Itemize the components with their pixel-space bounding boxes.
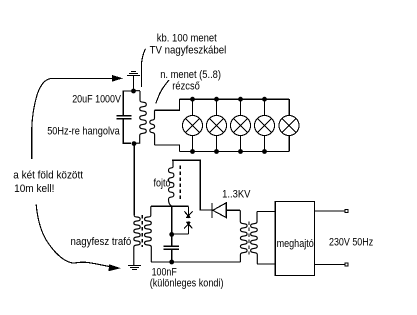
wire (fojto top to diode branch) <box>172 160 212 210</box>
wire (bottom rail) <box>151 261 241 263</box>
wire (lamp bottom rail) <box>180 151 290 153</box>
svg-text:20uF 1000V: 20uF 1000V <box>72 93 121 105</box>
svg-text:kb. 100 menet: kb. 100 menet <box>157 32 217 44</box>
wire (leader curve lower-left with arrow to E2) <box>36 205 109 267</box>
wire (T2 right bottom to driver box) <box>257 263 275 265</box>
node (dot top rail lamp3) <box>238 97 243 102</box>
svg-text:rézcső: rézcső <box>172 80 200 92</box>
terminal (230V top, open square) <box>345 210 348 213</box>
block U1 meghajto driver box <box>275 202 314 276</box>
wire (node B down to transformer T1) <box>133 146 135 216</box>
node (dot top rail lamp2) <box>214 97 219 102</box>
svg-text:50Hz-re hangolva: 50Hz-re hangolva <box>47 126 120 138</box>
diode D1 1..3KV <box>212 203 226 218</box>
capacitor C2 100nF <box>171 236 173 246</box>
lamp LA5 <box>279 116 299 136</box>
inductor L3 fojto choke <box>169 160 174 206</box>
inductor L1 primary winding <box>134 91 147 144</box>
wire (L2 top to lamp top rail) <box>155 99 180 110</box>
svg-text:n. menet (5..8): n. menet (5..8) <box>160 69 221 81</box>
ground E2 (bottom earth under T1) <box>128 265 141 270</box>
node (dot bottom rail lamp1) <box>190 149 195 154</box>
node D (junction dot on bottom rail) <box>169 260 174 265</box>
wire (lamp top rail) <box>180 98 290 100</box>
svg-text:1..3KV: 1..3KV <box>222 188 251 200</box>
node (dot bottom rail lamp4) <box>262 149 267 154</box>
wire (T2 core dashed) <box>248 222 250 255</box>
lamp LA3 <box>231 99 251 151</box>
svg-text:a két föld között: a két föld között <box>13 170 83 182</box>
svg-text:fojtó: fojtó <box>154 177 171 189</box>
svg-text:(különleges kondi): (különleges kondi) <box>150 278 224 290</box>
terminal (230V bottom, open square) <box>345 263 348 266</box>
wire (leader from n.menet text to L2) <box>156 80 169 103</box>
svg-text:TV nagyfeszkábel: TV nagyfeszkábel <box>150 45 227 57</box>
wire (fojto core dashed) <box>179 166 181 200</box>
svg-text:nagyfesz trafó: nagyfesz trafó <box>71 236 132 248</box>
lamp LA4 <box>255 99 275 151</box>
ground E1 (top earth, inverted) <box>127 71 140 76</box>
wire (leader curve upper-left with arrow to E1) <box>32 79 112 160</box>
transformer T2 left winding <box>240 210 247 262</box>
svg-text:230V 50Hz: 230V 50Hz <box>329 236 373 248</box>
node (dot bottom rail lamp2) <box>214 149 219 154</box>
wire (node A to capacitor branch) <box>123 91 133 115</box>
wire (T2 right top to driver box) <box>257 211 275 213</box>
wire (T1 top lead horizontal to spark gap branch) <box>151 205 189 207</box>
spark gap GAP1 <box>174 206 193 234</box>
wire (capacitor to node B) <box>123 119 131 143</box>
node (dot top rail lamp4) <box>262 97 267 102</box>
transformer T1 right winding <box>145 206 152 262</box>
transformer T1 left winding (nagyfesz trafo) <box>134 146 140 265</box>
inductor L2 secondary winding <box>150 110 155 145</box>
wire (driver to bottom terminal) <box>314 263 345 265</box>
wire (leader from kb.100 menet text to E1) <box>141 49 145 87</box>
transformer T2 right winding <box>251 212 258 264</box>
wire (right end verticals of lamp bank) <box>288 99 290 151</box>
wire (L2 bottom to lamp bottom rail) <box>155 145 180 152</box>
lamp LA1 <box>183 99 203 151</box>
node B (junction dot bottom of tank) <box>132 141 137 146</box>
node C (junction dot above C2) <box>169 232 174 237</box>
node A (junction dot top) <box>131 89 136 94</box>
wire (driver to top terminal) <box>314 210 345 212</box>
capacitor C1 20uF <box>117 116 132 119</box>
svg-text:10m kell!: 10m kell! <box>14 183 54 195</box>
wire (diode to transformer T2) <box>226 209 240 211</box>
lamp LA2 <box>207 99 227 151</box>
wire (main vertical to C2 node) <box>171 206 173 234</box>
node (dot top rail lamp1) <box>190 97 195 102</box>
node (dot bottom rail lamp3) <box>238 149 243 154</box>
wire (T1 core dashed) <box>141 215 143 247</box>
svg-text:meghajtó: meghajtó <box>277 238 314 250</box>
